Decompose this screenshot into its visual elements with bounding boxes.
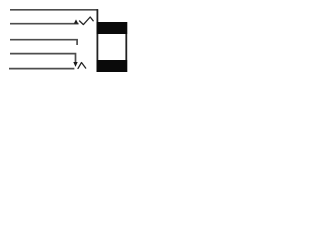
connector body left edge — [96, 9, 98, 72]
connector top contact bar (filled) — [97, 22, 128, 34]
wire 1 (top lead) — [10, 9, 98, 11]
wire 3 (third lead, L-bend down) — [10, 40, 77, 45]
arrow down at end of wire 4 stub — [73, 62, 77, 67]
squiggle (flex symbol) after wire 2 — [80, 17, 94, 25]
wire 2 (second lead) — [10, 23, 79, 25]
wire 4 (fourth lead, L-bend down) — [10, 54, 76, 63]
connector bottom contact bar (filled) — [97, 60, 128, 72]
wire 5 (bottom lead) — [9, 68, 74, 70]
caret squiggle (flex symbol) after wire 5 — [78, 63, 86, 69]
connector body right edge — [125, 22, 127, 72]
arrow up at end of wire 2 — [74, 19, 78, 23]
